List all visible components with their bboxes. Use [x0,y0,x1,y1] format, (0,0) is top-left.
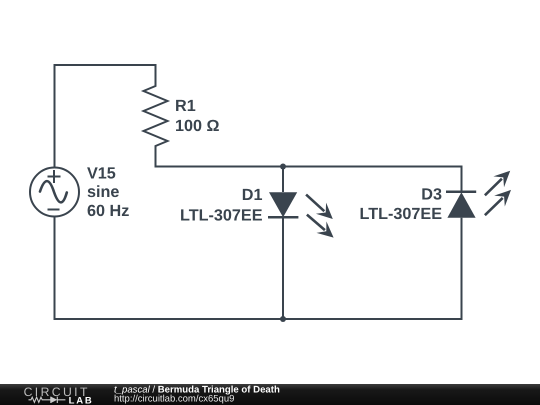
svg-text:http://circuitlab.com/cx65qu9: http://circuitlab.com/cx65qu9 [114,393,234,404]
svg-text:100 Ω: 100 Ω [175,117,220,135]
wire right vertical upper [461,166,463,192]
wire bottom rail [54,318,463,320]
svg-text:V15: V15 [87,165,116,183]
svg-text:LTL-307EE: LTL-307EE [360,205,443,223]
svg-text:D3: D3 [421,186,442,204]
svg-text:LTL-307EE: LTL-307EE [180,207,263,225]
svg-text:sine: sine [87,183,119,201]
voltage source V15 [30,168,79,217]
svg-text:R1: R1 [175,97,196,115]
resistor R1 [144,64,168,167]
svg-text:D1: D1 [242,186,263,204]
LED D3 [446,171,511,218]
wire D1 anode lead [282,167,284,193]
wire middle horizontal [155,166,463,168]
wire left vertical upper [54,64,56,168]
wire D1 cathode lead [282,217,284,320]
wire top horizontal [54,64,157,66]
wire D3 cathode lead [461,218,463,320]
wire left vertical lower [54,217,56,321]
node junction bottom [280,316,286,322]
CircuitLab logo schematic squiggle [29,397,66,403]
node junction top [280,164,286,170]
svg-text:LAB: LAB [69,395,92,405]
svg-text:60 Hz: 60 Hz [87,202,129,220]
LED D1 [268,192,334,237]
footer bar [0,384,540,405]
